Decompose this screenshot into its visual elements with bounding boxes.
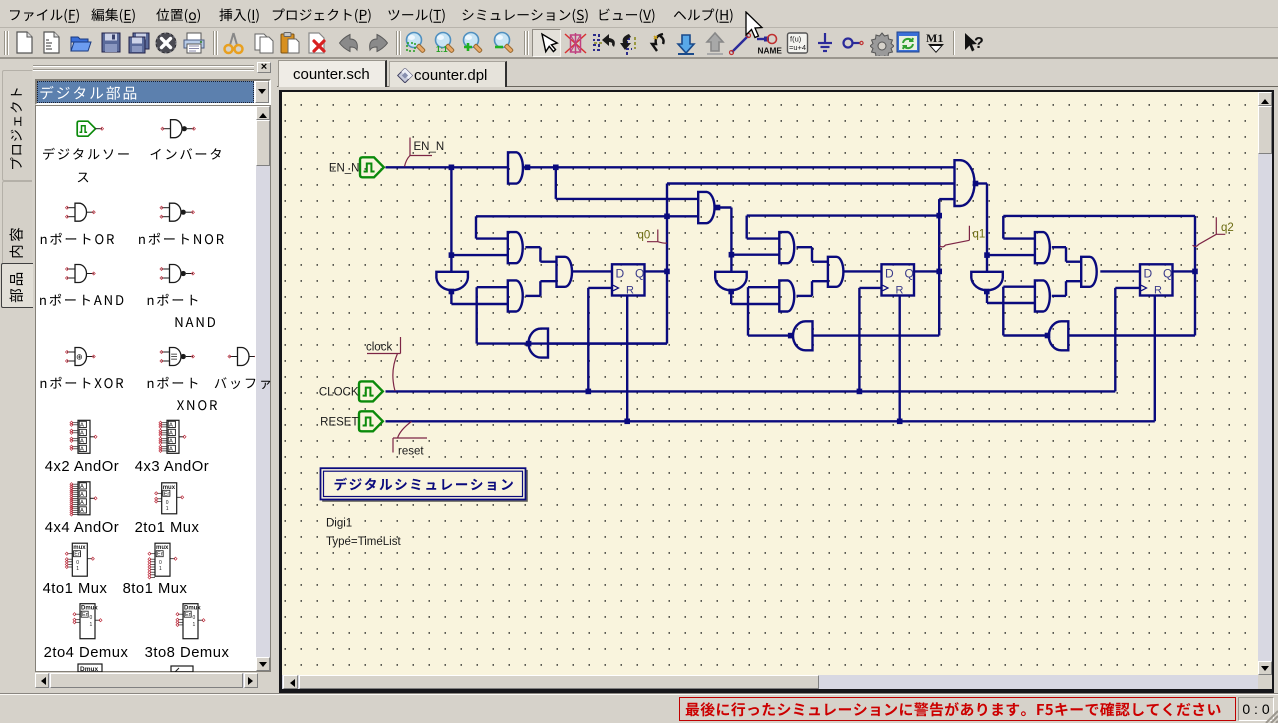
svg-text:A: A	[169, 431, 173, 437]
svg-text:?: ?	[974, 35, 984, 52]
svg-text:NAME: NAME	[758, 46, 783, 56]
svg-text:Dmux: Dmux	[80, 666, 98, 672]
svg-text:CLOCK: CLOCK	[319, 386, 359, 398]
svg-text:A: A	[80, 439, 84, 445]
svg-text:A: A	[80, 508, 84, 514]
svg-text:⊕: ⊕	[76, 353, 83, 362]
svg-text:D: D	[1144, 266, 1153, 280]
svg-text:M1: M1	[926, 31, 943, 45]
svg-text:En: En	[82, 612, 89, 618]
svg-text:q0: q0	[638, 229, 651, 241]
svg-text:mux: mux	[156, 545, 169, 551]
svg-text:1: 1	[193, 622, 196, 628]
svg-text:Q: Q	[1163, 266, 1172, 280]
svg-text:0: 0	[90, 615, 93, 621]
svg-text:A: A	[169, 423, 173, 429]
svg-text:A: A	[80, 447, 84, 453]
svg-text:EN_N: EN_N	[414, 141, 445, 153]
svg-text:R: R	[896, 284, 904, 296]
svg-text:En: En	[185, 612, 192, 618]
svg-text:Q: Q	[635, 266, 644, 280]
svg-text:reset: reset	[398, 446, 424, 458]
svg-text:A: A	[80, 492, 84, 498]
svg-text:Q: Q	[905, 266, 914, 280]
svg-text:1:1: 1:1	[436, 45, 448, 54]
svg-text:En: En	[164, 491, 171, 497]
svg-text:R: R	[1154, 284, 1162, 296]
svg-text:A: A	[80, 423, 84, 429]
svg-text:RESET: RESET	[320, 416, 358, 428]
svg-text:clock: clock	[366, 342, 392, 354]
svg-text:☰: ☰	[171, 353, 178, 362]
svg-text:0: 0	[193, 615, 196, 621]
svg-text:A: A	[80, 484, 84, 490]
svg-text:A: A	[80, 500, 84, 506]
svg-text:R: R	[626, 284, 634, 296]
svg-text:D: D	[885, 266, 894, 280]
svg-text:A: A	[169, 439, 173, 445]
svg-text:A: A	[169, 447, 173, 453]
svg-text:Digi1: Digi1	[326, 518, 352, 530]
svg-text:1: 1	[90, 622, 93, 628]
svg-text:1: 1	[166, 506, 169, 512]
svg-text:q2: q2	[1221, 222, 1234, 234]
svg-text:1: 1	[159, 566, 162, 572]
svg-text:mux: mux	[73, 545, 86, 551]
svg-text:1: 1	[76, 566, 79, 572]
svg-text:Dmux: Dmux	[184, 606, 201, 612]
svg-text:Type=TimeList: Type=TimeList	[326, 536, 401, 548]
svg-text:EN_N: EN_N	[329, 162, 360, 174]
svg-text:A: A	[80, 431, 84, 437]
svg-text:En: En	[74, 552, 81, 558]
svg-text:En: En	[157, 552, 164, 558]
svg-text:=u+4: =u+4	[789, 43, 806, 52]
svg-text:D: D	[616, 266, 625, 280]
svg-text:q1: q1	[973, 229, 986, 241]
svg-text:Dmux: Dmux	[81, 606, 98, 612]
